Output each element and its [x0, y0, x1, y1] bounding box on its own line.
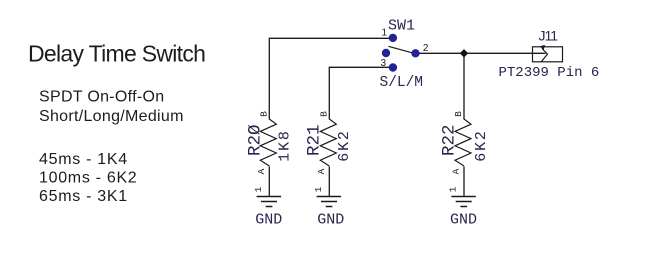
svg-text:R22: R22: [440, 124, 460, 156]
svg-text:PT2399 Pin 6: PT2399 Pin 6: [499, 65, 600, 81]
svg-text:6K2: 6K2: [336, 129, 353, 161]
ground: GND under R22: [450, 197, 477, 229]
ground: GND under R21: [317, 197, 345, 229]
svg-text:1: 1: [313, 186, 324, 192]
J11 arrow symbol: [542, 49, 548, 62]
svg-text:B: B: [318, 111, 329, 117]
node: junction at pin2 net: [460, 49, 468, 57]
switch lever: [388, 46, 413, 53]
wire: SW1 pin1 to R20: [269, 38, 389, 119]
wire: R20 to ground: [268, 167, 270, 197]
connector J11: [499, 28, 600, 81]
svg-text:100ms - 6K2: 100ms - 6K2: [39, 170, 137, 187]
svg-text:1: 1: [448, 186, 459, 192]
resistor R21: [305, 111, 353, 193]
svg-text:S/L/M: S/L/M: [380, 75, 424, 91]
svg-text:B: B: [453, 111, 464, 117]
note: switch type: [39, 89, 184, 126]
wire: SW1 pin3 to R21: [329, 67, 389, 119]
svg-text:GND: GND: [317, 211, 344, 228]
switch contact center: [382, 49, 390, 57]
svg-text:Short/Long/Medium: Short/Long/Medium: [39, 108, 184, 125]
resistor R22: [440, 111, 490, 193]
svg-text:A: A: [451, 168, 462, 174]
svg-text:45ms - 1K4: 45ms - 1K4: [39, 151, 128, 168]
switch contact pin3: [389, 63, 397, 71]
svg-text:65ms - 3K1: 65ms - 3K1: [39, 188, 128, 205]
switch contact pin1: [389, 34, 397, 42]
svg-text:A: A: [256, 168, 267, 174]
svg-text:1: 1: [253, 186, 264, 192]
switch SW1: [380, 18, 429, 92]
ground: GND under R20: [255, 197, 282, 229]
wire: SW1 pin2 to J11: [420, 52, 546, 54]
resistor R20: [246, 111, 294, 193]
svg-text:R2Ø: R2Ø: [246, 124, 266, 156]
svg-text:B: B: [258, 111, 269, 117]
note: delay values: [39, 151, 137, 205]
svg-text:Delay Time Switch: Delay Time Switch: [28, 41, 205, 67]
note: title: [28, 41, 205, 67]
switch contact pin2: [411, 49, 419, 57]
svg-text:J11: J11: [539, 28, 559, 44]
svg-text:GND: GND: [255, 211, 282, 228]
svg-text:SW1: SW1: [388, 18, 415, 35]
svg-text:1: 1: [381, 27, 387, 38]
svg-text:6K2: 6K2: [473, 129, 490, 161]
svg-text:R21: R21: [305, 124, 325, 156]
svg-text:2: 2: [423, 43, 429, 54]
svg-text:A: A: [316, 168, 327, 174]
svg-text:3: 3: [380, 58, 386, 69]
svg-text:GND: GND: [450, 211, 477, 228]
wire: R22 to ground: [463, 167, 465, 197]
wire: junction to R22: [463, 53, 465, 119]
wire: R21 to ground: [328, 167, 330, 197]
svg-text:SPDT On-Off-On: SPDT On-Off-On: [39, 89, 164, 106]
svg-text:1K8: 1K8: [277, 129, 294, 161]
